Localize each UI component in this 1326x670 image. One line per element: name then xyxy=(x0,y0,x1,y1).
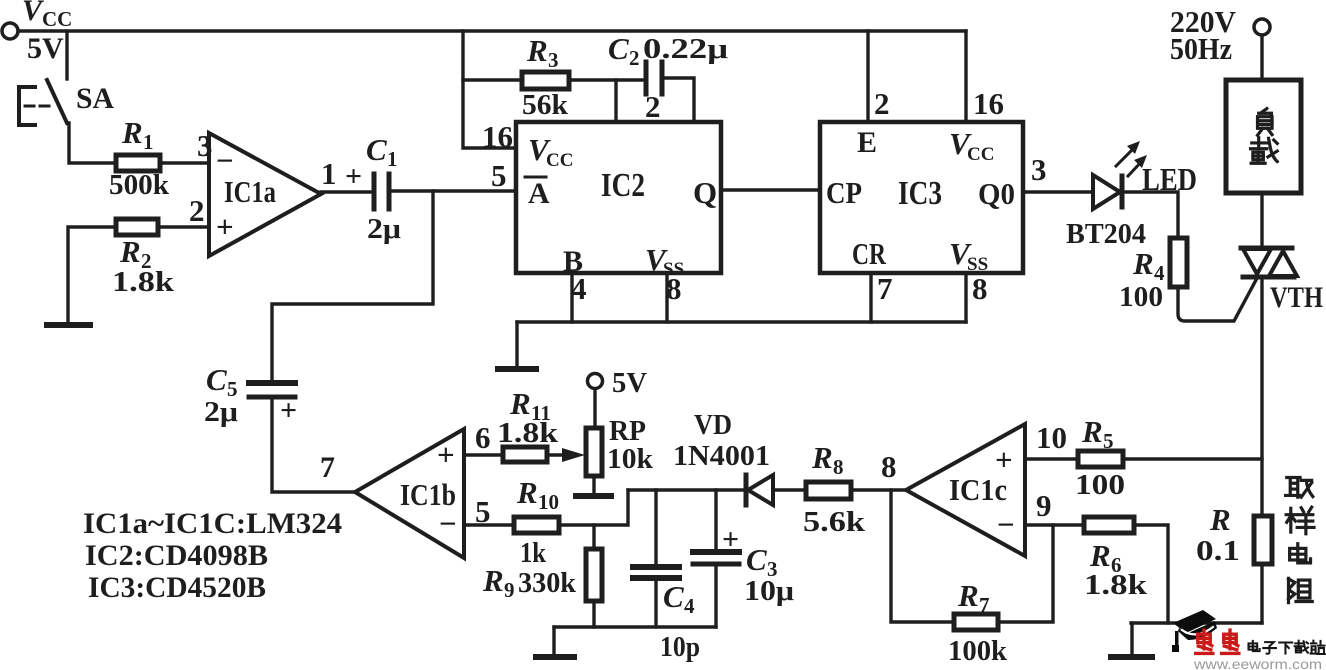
svg-text:5.6k: 5.6k xyxy=(803,506,866,538)
svg-text:0.22μ: 0.22μ xyxy=(643,33,729,65)
svg-text:C: C xyxy=(608,31,629,66)
svg-text:9: 9 xyxy=(1036,488,1052,523)
resistor R11 xyxy=(503,447,547,462)
svg-text:1.8k: 1.8k xyxy=(497,418,559,449)
wire IC3 pin2 stub top xyxy=(866,31,869,122)
op-amp IC1a xyxy=(209,133,321,256)
wire R to bottom rail xyxy=(1260,564,1263,623)
svg-text:10k: 10k xyxy=(607,443,654,475)
wire pin9 to R6 xyxy=(1025,523,1084,526)
svg-text:10: 10 xyxy=(1036,420,1067,455)
label zai (load char 2) xyxy=(1251,138,1278,164)
capacitor C1 xyxy=(372,174,377,209)
svg-text:CC: CC xyxy=(42,7,72,31)
LED diode xyxy=(1093,175,1120,209)
svg-text:C: C xyxy=(206,362,227,397)
svg-text:330k: 330k xyxy=(518,567,577,599)
wire RP to ground xyxy=(592,476,595,494)
ground bottom center xyxy=(536,654,574,660)
svg-text:+: + xyxy=(216,209,234,244)
svg-text:5V: 5V xyxy=(612,367,647,399)
svg-text:+: + xyxy=(722,523,739,556)
wire ground rail under ICs xyxy=(517,320,966,323)
ground under IC2 rail xyxy=(498,366,536,372)
LED arrow 1 xyxy=(1116,146,1136,166)
wire rail drop to IC2 pin16 xyxy=(463,31,516,148)
svg-text:1: 1 xyxy=(321,156,337,191)
svg-text:100: 100 xyxy=(1119,281,1163,313)
svg-text:16: 16 xyxy=(973,86,1004,121)
svg-text:+: + xyxy=(437,437,455,472)
svg-text:4: 4 xyxy=(684,594,695,618)
label zu (sampling char 4) xyxy=(1288,578,1312,602)
LED arrow 2 xyxy=(1128,160,1143,176)
svg-text:A: A xyxy=(528,177,550,210)
wire R1 to pin3 xyxy=(160,161,209,164)
svg-text:2μ: 2μ xyxy=(204,396,239,428)
svg-text:16: 16 xyxy=(482,119,513,154)
svg-text:9: 9 xyxy=(504,578,515,602)
switch SA blade xyxy=(47,80,67,123)
svg-text:IC3:CD4520B: IC3:CD4520B xyxy=(88,571,266,604)
wire switch to R1 xyxy=(69,123,116,163)
svg-text:3: 3 xyxy=(1031,152,1047,187)
svg-text:CP: CP xyxy=(826,175,862,210)
diode VD xyxy=(744,475,749,505)
label qu (sampling char 1) xyxy=(1286,477,1313,497)
svg-text:IC1c: IC1c xyxy=(949,472,1007,507)
wire Q to CP xyxy=(721,188,820,191)
wire R5 to main vertical xyxy=(1123,457,1262,460)
svg-text:IC2: IC2 xyxy=(601,167,645,204)
svg-text:+: + xyxy=(345,160,362,193)
svg-text:Q0: Q0 xyxy=(978,176,1015,211)
svg-text:6: 6 xyxy=(475,420,491,455)
wire triac down to R xyxy=(1260,277,1263,516)
svg-text:56k: 56k xyxy=(522,89,569,121)
svg-text:C: C xyxy=(366,132,387,167)
wire 220V to load xyxy=(1260,35,1263,80)
svg-text:R: R xyxy=(509,386,531,421)
svg-text:IC2:CD4098B: IC2:CD4098B xyxy=(85,539,268,572)
op-amp IC1c xyxy=(906,424,1025,556)
wire load to triac xyxy=(1260,193,1263,248)
resistor R2 xyxy=(116,219,158,235)
wire R3 left xyxy=(463,78,522,81)
svg-text:50Hz: 50Hz xyxy=(1170,31,1232,66)
wire pin5 to R10 xyxy=(464,523,514,526)
svg-text:2: 2 xyxy=(645,89,661,124)
wire bottom right rail xyxy=(1131,621,1262,624)
svg-text:R: R xyxy=(482,563,504,598)
load box xyxy=(1226,80,1301,193)
wire R6 right down to rail xyxy=(1134,525,1168,623)
wire bottom rail C4 xyxy=(554,625,716,628)
resistor R1 xyxy=(116,155,160,171)
svg-text:−: − xyxy=(997,507,1015,542)
svg-text:R: R xyxy=(811,440,833,475)
ground under RP xyxy=(576,493,611,499)
wire C5 to IC1b pin7 xyxy=(272,397,355,492)
svg-text:7: 7 xyxy=(877,271,893,306)
wire IC3 pin7 stub xyxy=(869,273,872,322)
svg-text:IC1a: IC1a xyxy=(224,174,276,209)
svg-text:8: 8 xyxy=(972,271,988,306)
wire IC2 pin8 stub xyxy=(665,273,668,322)
svg-text:1.8k: 1.8k xyxy=(112,266,175,298)
svg-text:5: 5 xyxy=(475,494,491,529)
svg-text:1k: 1k xyxy=(520,537,547,569)
svg-text:8: 8 xyxy=(666,271,682,306)
resistor R7 xyxy=(954,614,998,630)
wire node rail to diode xyxy=(628,488,744,491)
resistor R3 xyxy=(522,72,569,89)
svg-text:100: 100 xyxy=(1075,469,1125,501)
label fu (load char 1) xyxy=(1258,109,1273,136)
terminal 220V xyxy=(1254,19,1270,35)
svg-text:R: R xyxy=(957,578,979,613)
svg-text:R: R xyxy=(526,33,548,68)
svg-text:IC1a~IC1C:LM324: IC1a~IC1C:LM324 xyxy=(83,507,342,540)
wire C1 junction down to C5 xyxy=(272,191,433,381)
wire R3 to C2 xyxy=(569,78,646,81)
label yang (sampling char 2) xyxy=(1286,507,1314,534)
svg-text:5: 5 xyxy=(491,158,507,193)
svg-text:2: 2 xyxy=(629,46,640,70)
svg-text:8: 8 xyxy=(833,455,844,479)
svg-text:500k: 500k xyxy=(109,169,170,201)
potentiometer RP xyxy=(586,428,602,476)
capacitor C4 xyxy=(654,490,657,566)
wire node2 drop left xyxy=(614,80,617,122)
svg-text:0.1: 0.1 xyxy=(1196,535,1240,567)
watermark graduation cap xyxy=(1172,610,1217,652)
wire VD to R8 xyxy=(773,488,806,491)
wire R11 to RP wiper arrow xyxy=(547,453,568,456)
triac VTH xyxy=(1241,246,1292,251)
svg-text:100k: 100k xyxy=(948,635,1008,667)
wire R10 to node xyxy=(559,490,628,525)
svg-text:2μ: 2μ xyxy=(367,213,402,245)
svg-text:1: 1 xyxy=(143,130,154,154)
wire R7 to pin9 node xyxy=(998,525,1053,622)
wire 5V to RP xyxy=(593,389,596,428)
svg-text:5V: 5V xyxy=(27,32,64,65)
resistor R4 xyxy=(1170,238,1187,287)
svg-text:10μ: 10μ xyxy=(744,575,795,607)
switch SA actuator bracket xyxy=(19,87,35,125)
wire C1 to IC2 pin5 xyxy=(389,189,516,192)
wire R4 to triac gate xyxy=(1178,280,1256,321)
svg-text:VD: VD xyxy=(694,409,732,441)
watermark dianzixiazaizhan chars xyxy=(1248,641,1324,654)
wire drop to switch SA xyxy=(65,31,68,79)
wire Q0 to LED xyxy=(1023,190,1093,193)
watermark chongchong red chars xyxy=(1196,630,1239,653)
svg-text:C: C xyxy=(663,579,684,614)
svg-text:4: 4 xyxy=(571,271,587,306)
IC2 box xyxy=(516,122,721,273)
wire rail to ground xyxy=(1130,623,1133,654)
svg-text:8: 8 xyxy=(881,449,897,484)
ground bottom right xyxy=(1111,654,1152,660)
svg-text:R: R xyxy=(1089,538,1111,573)
switch SA dashed link xyxy=(25,105,54,108)
wire IC3 pin8 stub xyxy=(964,273,967,322)
svg-text:E: E xyxy=(857,126,877,159)
wire pin10 to R5 xyxy=(1025,457,1078,460)
wire pin8 node down to R7 xyxy=(891,490,954,622)
resistor R sampling xyxy=(1254,516,1272,564)
ground under R2 xyxy=(47,322,90,328)
svg-text:R: R xyxy=(119,234,141,269)
svg-text:10: 10 xyxy=(538,490,559,514)
op-amp IC1b xyxy=(355,429,464,558)
svg-text:C: C xyxy=(746,542,767,577)
svg-text:10p: 10p xyxy=(660,631,700,663)
svg-text:7: 7 xyxy=(320,451,335,484)
svg-text:7: 7 xyxy=(979,593,990,617)
svg-text:CC: CC xyxy=(967,144,994,165)
terminal Vcc 5V xyxy=(2,23,18,39)
svg-text:1: 1 xyxy=(387,147,398,171)
svg-text:R: R xyxy=(1209,502,1231,537)
svg-text:+: + xyxy=(280,394,297,427)
wire rail to ground xyxy=(515,322,518,366)
label dian (sampling char 3) xyxy=(1290,544,1311,563)
wire R2 to pin2 xyxy=(158,225,209,228)
wire pin1 to C1 xyxy=(321,190,374,193)
svg-text:R: R xyxy=(1132,246,1154,281)
svg-text:1.8k: 1.8k xyxy=(1084,569,1148,601)
svg-text:www.eeworm.com: www.eeworm.com xyxy=(1193,656,1322,670)
capacitor C2 xyxy=(644,62,649,94)
svg-text:CR: CR xyxy=(852,236,886,271)
wire LED to R4 xyxy=(1122,192,1178,238)
svg-text:R: R xyxy=(121,115,143,150)
wire rail to ground left xyxy=(552,627,555,654)
capacitor C5 xyxy=(249,380,295,386)
wire pin6 to R11 xyxy=(464,453,503,456)
resistor R9 xyxy=(592,525,595,549)
svg-text:Q: Q xyxy=(693,175,717,210)
resistor R6 xyxy=(1084,517,1134,533)
capacitor C3 xyxy=(714,490,717,551)
svg-text:−: − xyxy=(216,143,234,178)
wire IC3 pin16 stub top xyxy=(964,31,967,122)
svg-text:5: 5 xyxy=(1103,429,1114,453)
terminal 5V xyxy=(588,374,603,389)
svg-text:IC1b: IC1b xyxy=(400,477,456,512)
svg-text:VTH: VTH xyxy=(1270,281,1323,314)
wire C2 right drop xyxy=(662,78,694,122)
wire R2 left to ground xyxy=(68,227,116,322)
resistor R8 xyxy=(806,482,851,499)
resistor R10 xyxy=(514,517,559,533)
wire R8 to IC1c pin8 xyxy=(851,488,906,491)
IC3 box xyxy=(820,122,1023,273)
wire top Vcc rail xyxy=(18,29,966,32)
resistor R5 xyxy=(1078,451,1123,467)
svg-text:1N4001: 1N4001 xyxy=(673,440,770,472)
svg-text:IC3: IC3 xyxy=(898,175,942,212)
svg-text:R: R xyxy=(1081,414,1103,449)
svg-text:3: 3 xyxy=(548,48,559,72)
svg-text:2: 2 xyxy=(189,193,205,228)
svg-text:2: 2 xyxy=(874,86,890,121)
svg-text:CC: CC xyxy=(546,150,573,171)
svg-text:R: R xyxy=(516,475,538,510)
wire IC2 pin4 stub xyxy=(570,273,573,322)
svg-text:SA: SA xyxy=(76,82,114,115)
